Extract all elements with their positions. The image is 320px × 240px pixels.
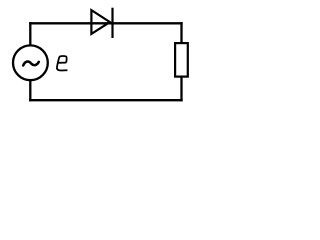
label e — [57, 56, 67, 71]
diode D1 triangle — [91, 10, 110, 34]
AC tilde symbol — [23, 62, 39, 66]
wire left — [29, 22, 31, 101]
wire top — [29, 22, 183, 24]
wire bottom — [29, 99, 183, 101]
wire right — [180, 22, 182, 101]
diode D1 cathode bar — [111, 8, 113, 38]
resistor R1 — [175, 43, 188, 77]
source V1 (AC) — [13, 45, 48, 80]
